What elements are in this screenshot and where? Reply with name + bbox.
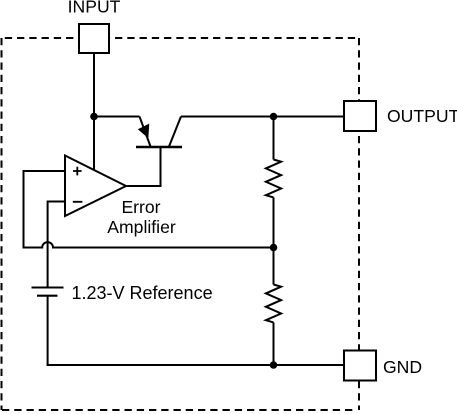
V1 positive plate (long)	[32, 287, 64, 289]
svg-text:INPUT: INPUT	[68, 0, 121, 17]
transistor Q1 (PNP pass transistor)	[136, 117, 182, 148]
svg-text:GND: GND	[383, 357, 422, 377]
wire: feedback node down to resistor R2	[273, 248, 275, 285]
U1 minus symbol	[73, 201, 83, 203]
V1 negative plate (short)	[37, 295, 58, 297]
regulator IC boundary (dashed box)	[2, 38, 360, 410]
wire: R2 bottom to ground node	[273, 322, 275, 365]
svg-text:Error: Error	[121, 197, 160, 217]
INPUT pin pad	[79, 24, 109, 53]
wire: op-amp inverting (-) input down to reference positive terminal	[48, 202, 65, 288]
svg-text:1.23-V Reference: 1.23-V Reference	[72, 283, 213, 303]
Q1 emitter lead	[140, 117, 151, 147]
junction dot: input/emitter node	[90, 113, 98, 121]
battery V1 (1.23-V reference)	[32, 288, 64, 296]
svg-text:OUTPUT: OUTPUT	[387, 106, 457, 126]
wire: output node down to resistor R1	[273, 117, 275, 160]
wire: op-amp noninverting (+) input branch	[24, 171, 66, 249]
Q1 collector lead	[169, 117, 181, 147]
GND pin pad	[344, 351, 376, 381]
wire: emitter horizontal from input node to Q1	[93, 116, 140, 118]
wire: R1 bottom to feedback node	[273, 197, 275, 248]
junction dot: feedback divider node	[270, 244, 278, 252]
Q1 base bar	[136, 146, 182, 149]
wire: INPUT pin down to error-amplifier top edge	[93, 53, 95, 171]
wire: ground rail from battery to GND pin	[47, 364, 344, 366]
OUTPUT pin pad	[344, 101, 376, 131]
svg-text:Amplifier: Amplifier	[107, 217, 176, 237]
junction dot: output/R1 node	[270, 113, 278, 121]
wire: op-amp output to Q1 base	[126, 147, 161, 186]
Q1 emitter arrow (PNP, pointing to base)	[139, 125, 149, 138]
resistor R2 (lower feedback resistor)	[266, 285, 281, 323]
wire: collector horizontal from Q1 to OUTPUT pin	[181, 116, 344, 118]
junction dot: ground node	[270, 361, 278, 369]
wire: feedback line from op-amp + branch to divider node (with hop over reference lead)	[24, 242, 274, 247]
resistor R1 (upper feedback resistor)	[266, 160, 281, 198]
op-amp U1 (error amplifier)	[65, 156, 126, 217]
U1 plus symbol	[73, 167, 82, 176]
wire: battery negative lead down to ground rail	[47, 296, 49, 366]
